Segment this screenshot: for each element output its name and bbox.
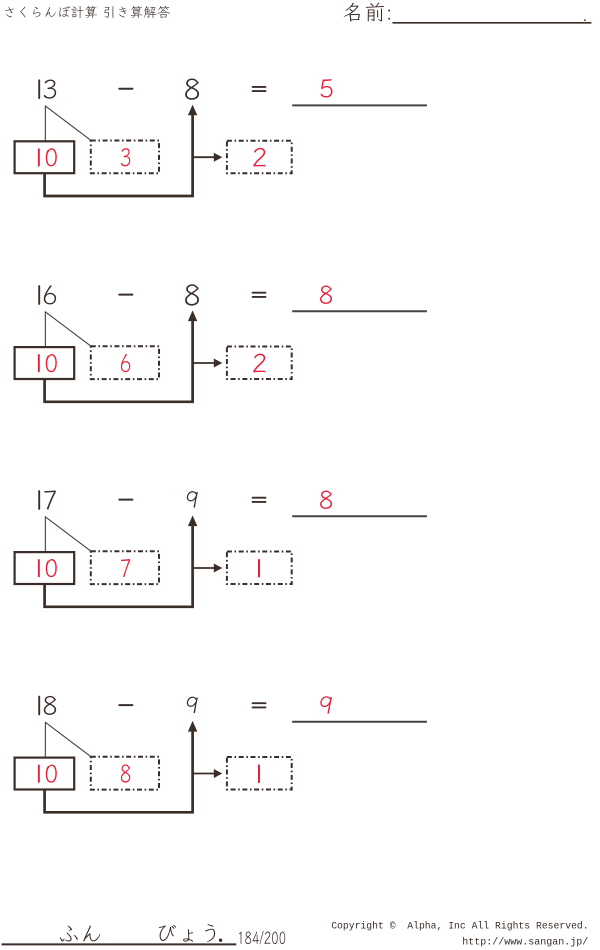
problem 1 cherry stem right [46,106,91,140]
period after seconds [219,939,222,942]
worksheet title text [5,6,170,18]
problem 4 right arrowhead [214,769,223,778]
problem 2 ten box digit 1 (red) [38,355,40,371]
problem 1 remainder digit 3 (red) [121,148,130,166]
svg-text:http://www.sangan.jp/: http://www.sangan.jp/ [462,937,588,949]
problem 1 right arrow line [194,156,215,158]
problem 2 answer underline [292,310,427,312]
problem 2 right arrowhead [214,359,223,368]
problem 1 minuend tens digit 1 [38,80,40,98]
problem 1 up arrowhead [188,105,197,116]
problem 1 ten box digit 1 (red) [38,149,40,165]
problem 3 minuend ones digit 7 [44,490,56,509]
problem 4 ten box [15,758,75,790]
problem 4 ten box digit 1 (red) [38,766,40,782]
problem 4 cherry stem right [46,722,91,756]
problem 3 cherry stem left [44,517,46,552]
problem 4 answer underline [292,721,427,723]
problem 1 ten box digit 0 (red) [46,148,57,166]
problem 3 right arrow line [194,567,215,569]
svg-text:Copyright © Alpha, Inc All Ri: Copyright © Alpha, Inc All Rights Reserv… [331,921,588,932]
problem 4 subtrahend 9 [187,697,198,713]
problem 1 equals sign [253,86,266,88]
problem 3 ten box [15,552,75,584]
problem 2 cherry stem left [44,312,46,347]
problem 3 equals sign [253,497,266,499]
name underline [393,22,592,24]
problem 4 minuend ones digit 8 [44,696,56,715]
problem 1 minus sign [119,88,132,90]
problem 2 takeaway line [45,315,193,402]
problem 4 cherry stem left [44,722,46,757]
problem 3 subtrahend 9 [187,491,198,507]
problem 2 minus sign [119,294,132,296]
problem 4 remainder dashed box [91,757,159,790]
problem 2 ten box [15,347,75,379]
minutes label [60,926,100,942]
problem 1 ten box [15,141,75,173]
problem 1 answer digit 5 (red) [321,79,333,97]
problem 3 takeaway line [45,520,193,607]
problem 4 result dashed box [227,757,292,789]
problem 2 equals sign [253,292,266,294]
problem 2 minuend ones digit 6 [44,285,56,304]
problem 1 answer underline [292,104,427,106]
period after name line [584,19,586,21]
problem 1 takeaway line [45,109,193,196]
problem 3 result digit 1 (red) [258,560,260,577]
problem 4 answer digit 9 (red) [320,696,332,713]
problem 2 result digit 2 (red) [253,354,265,373]
problem 3 result dashed box [227,552,292,584]
problem 4 minuend tens digit 1 [38,697,40,715]
timer underline [2,943,237,945]
problem 4 result digit 1 (red) [258,765,260,782]
problem 4 ten box digit 0 (red) [46,765,57,783]
problem 3 ten box digit 0 (red) [46,559,57,577]
problem 2 result dashed box [227,347,292,379]
problem 1 remainder dashed box [91,141,159,174]
problem 2 right arrow line [194,362,215,364]
problem 3 answer underline [292,515,427,517]
problem 2 up arrowhead [188,310,197,321]
problem 3 minuend tens digit 1 [38,491,40,509]
problem 3 remainder digit 7 (red) [121,559,130,577]
problem 2 subtrahend 8 [185,284,199,305]
problem 1 subtrahend 8 [185,78,199,99]
problem 1 cherry stem left [44,106,46,141]
problem 1 minuend ones digit 3 [44,80,56,99]
problem 4 remainder digit 8 (red) [121,764,130,782]
problem 4 up arrowhead [188,721,197,732]
problem 2 remainder digit 6 (red) [121,354,130,372]
problem 4 takeaway line [45,725,193,812]
problem 4 right arrow line [194,773,215,775]
problem 3 ten box digit 1 (red) [38,560,40,576]
problem 1 result dashed box [227,141,292,173]
problem 4 minus sign [119,704,132,706]
problem 2 minuend tens digit 1 [38,286,40,304]
problem 4 equals sign [253,702,266,704]
page number 184/200 [239,931,285,945]
problem 3 answer digit 8 (red) [320,491,332,509]
problem 3 minus sign [119,499,132,501]
problem 1 right arrowhead [214,153,223,162]
problem 1 result digit 2 (red) [253,148,265,167]
problem 3 up arrowhead [188,515,197,526]
problem 2 answer digit 8 (red) [320,286,332,304]
problem 3 remainder dashed box [91,551,159,584]
problem 3 right arrowhead [214,564,223,573]
problem 2 cherry stem right [46,312,91,346]
problem 2 remainder dashed box [91,346,159,379]
seconds label [159,924,215,942]
problem 2 ten box digit 0 (red) [46,354,57,372]
problem 3 cherry stem right [46,517,91,551]
name label [344,2,390,21]
